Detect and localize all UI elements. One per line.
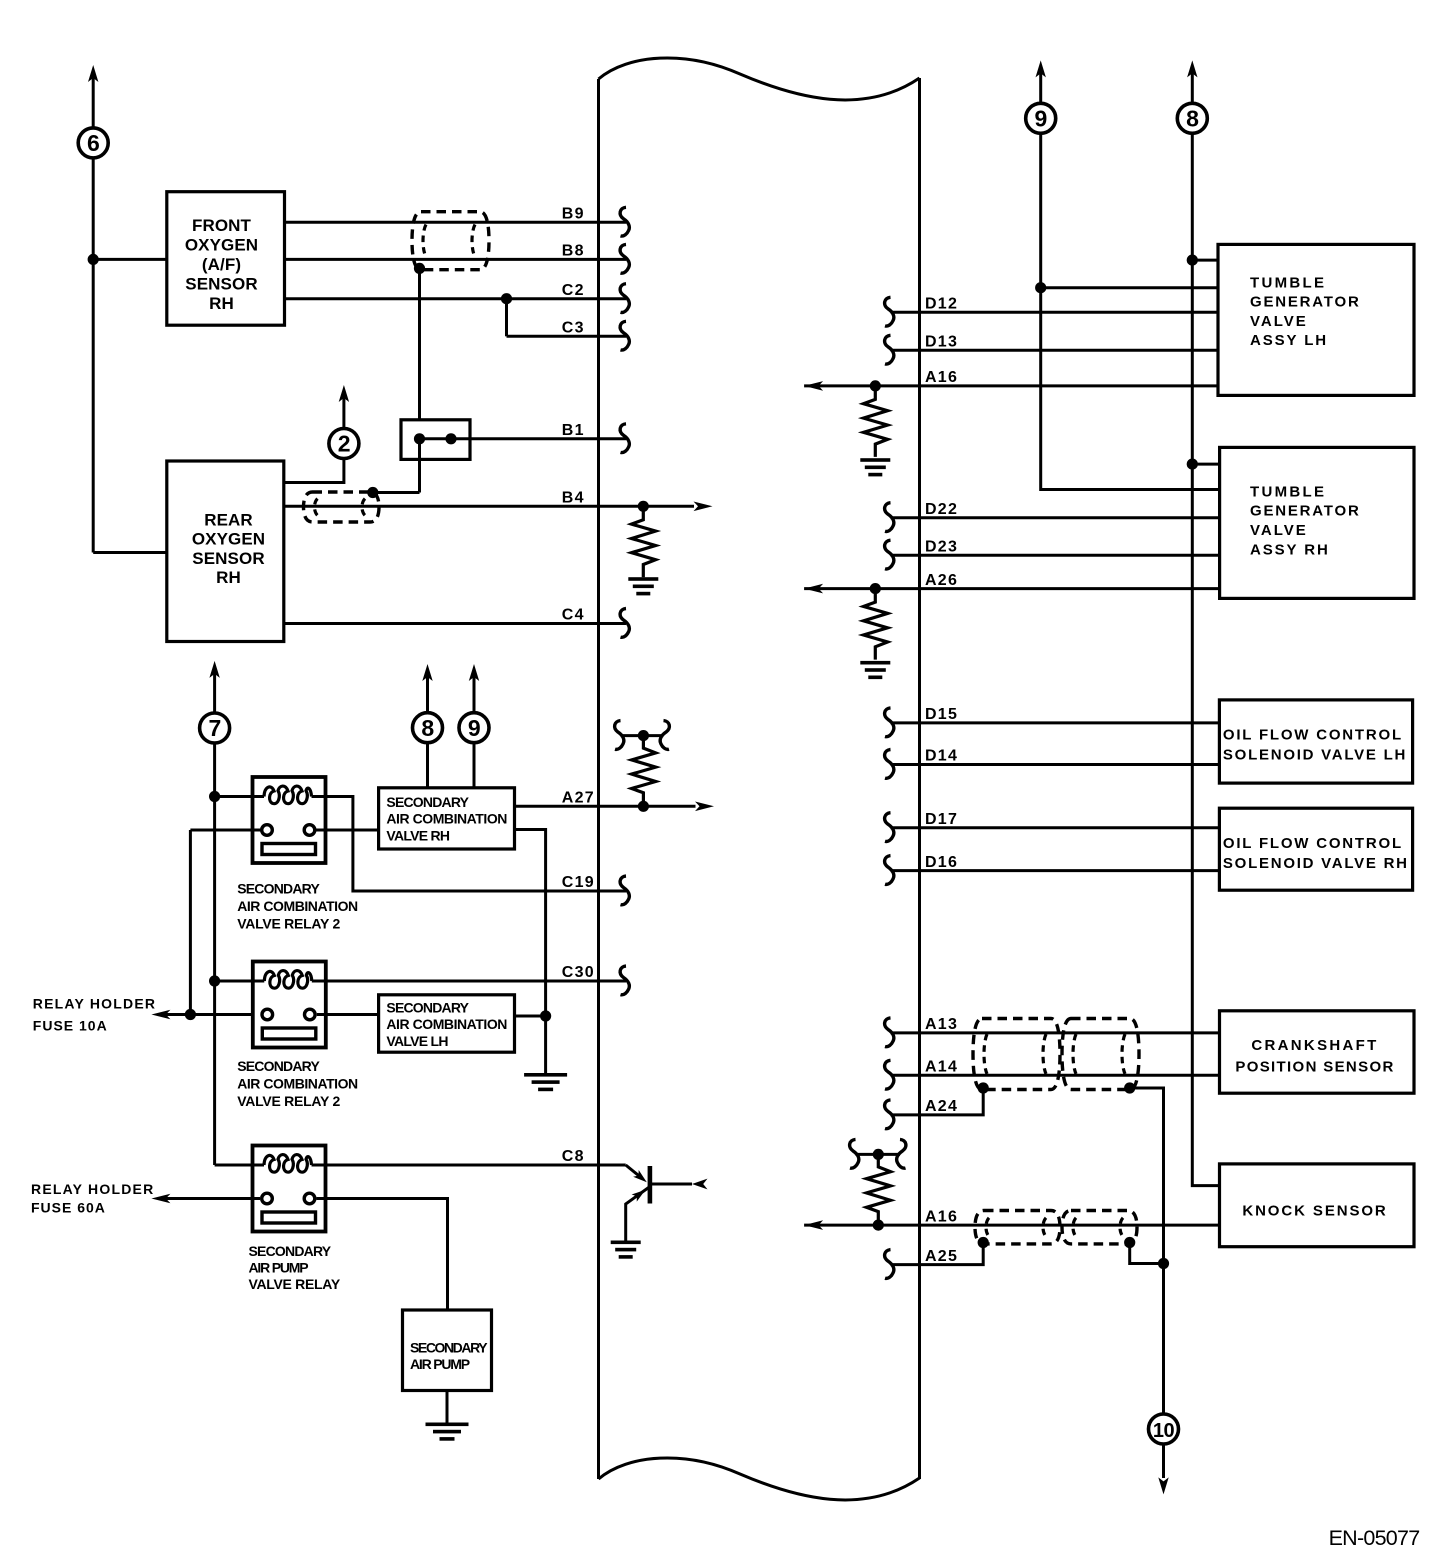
svg-text:SECONDARY: SECONDARY bbox=[386, 794, 469, 810]
rail break squiggle left bbox=[615, 721, 624, 750]
wire node9 vertical (right) bbox=[1041, 133, 1220, 489]
svg-text:VALVE RELAY 2: VALVE RELAY 2 bbox=[237, 1093, 340, 1109]
wire relay2 contact left bbox=[190, 1013, 260, 1016]
transistor Q1 base lead bbox=[626, 1165, 641, 1178]
shield knock segment 1 bbox=[975, 1211, 1060, 1244]
connector break A25 bbox=[885, 1250, 894, 1279]
svg-text:RELAY HOLDER: RELAY HOLDER bbox=[31, 1181, 154, 1197]
svg-text:2: 2 bbox=[338, 431, 350, 457]
wire to rear oxygen sensor bbox=[93, 551, 167, 554]
wire A16 tumble bbox=[804, 384, 1218, 387]
wire D14 bbox=[891, 763, 1220, 766]
wire node7 vertical bbox=[213, 743, 216, 1165]
wire to relay2 coil bbox=[215, 980, 253, 983]
wire C3 bbox=[507, 335, 627, 338]
wire C2 bbox=[285, 297, 627, 300]
wire fuse10A arrow bbox=[165, 1013, 190, 1016]
connector break D22 bbox=[885, 503, 894, 532]
ECM bus left edge bbox=[597, 79, 600, 1479]
svg-text:KNOCK SENSOR: KNOCK SENSOR bbox=[1242, 1203, 1387, 1220]
wire to relay1 coil bbox=[215, 795, 253, 798]
wire D16 bbox=[891, 869, 1220, 872]
node 9 arrow up (valve RH) bbox=[469, 664, 479, 681]
svg-text:D16: D16 bbox=[925, 854, 958, 871]
node 8 circled number (right) bbox=[1177, 103, 1207, 133]
svg-text:SENSOR: SENSOR bbox=[192, 549, 264, 568]
node 8 arrow up (valve RH) bbox=[422, 664, 432, 681]
condenser drain down bbox=[418, 439, 421, 493]
wire relay1 contact left bbox=[190, 829, 261, 832]
node 9 wire up (right) bbox=[1039, 72, 1042, 103]
arrow A16 tumble bbox=[804, 381, 823, 391]
junction node8 tumble LH bbox=[1187, 255, 1198, 266]
svg-text:OIL FLOW CONTROL: OIL FLOW CONTROL bbox=[1223, 835, 1403, 852]
connector break A13 bbox=[885, 1018, 894, 1047]
oil flow control solenoid valve LH box bbox=[1219, 700, 1412, 783]
svg-text:D14: D14 bbox=[925, 748, 958, 765]
wire node10 bbox=[1162, 1264, 1165, 1415]
connector break D23 bbox=[885, 540, 894, 569]
svg-text:A26: A26 bbox=[925, 572, 958, 589]
svg-text:VALVE: VALVE bbox=[1250, 522, 1308, 539]
connector break C19 bbox=[620, 876, 629, 905]
svg-text:SECONDARY: SECONDARY bbox=[410, 1340, 488, 1356]
node 2 wire up bbox=[342, 397, 345, 429]
svg-text:A13: A13 bbox=[925, 1016, 958, 1033]
svg-text:D15: D15 bbox=[925, 706, 958, 723]
wire D17 bbox=[891, 826, 1220, 829]
tumble generator valve assy LH box bbox=[1218, 244, 1414, 395]
shield crankshaft pair segment 1 bbox=[973, 1019, 1060, 1090]
junction knock rail bbox=[873, 1149, 884, 1160]
connector break D13 bbox=[885, 335, 894, 364]
shield drain junction knock right bbox=[1124, 1237, 1135, 1248]
connector break D14 bbox=[885, 750, 894, 779]
transistor Q1 base arrow bbox=[633, 1170, 649, 1186]
svg-text:FUSE 10A: FUSE 10A bbox=[33, 1017, 108, 1033]
wire node2 to rear oxygen bbox=[284, 459, 344, 483]
svg-text:TUMBLE: TUMBLE bbox=[1250, 483, 1326, 500]
svg-text:A16: A16 bbox=[925, 1208, 958, 1225]
junction relay2 coil bbox=[209, 975, 220, 986]
shield drain junction knock left bbox=[978, 1237, 989, 1248]
wire B9 bbox=[285, 221, 627, 224]
shield drain wire down to noise filter bbox=[418, 268, 421, 438]
svg-text:C3: C3 bbox=[562, 320, 585, 337]
wire D12 bbox=[891, 311, 1219, 314]
A27 pullup rail bbox=[621, 734, 664, 737]
svg-text:GENERATOR: GENERATOR bbox=[1250, 503, 1361, 520]
wire node9 to tumble LH bbox=[1041, 286, 1218, 289]
connector break C3 bbox=[620, 321, 629, 350]
connector break C30 bbox=[620, 966, 629, 995]
relay K2 secondary air combination valve relay 2 bbox=[253, 962, 326, 1048]
node 7 circled number bbox=[200, 713, 230, 743]
connector break D17 bbox=[885, 813, 894, 842]
secondary air combination valve LH box bbox=[379, 995, 515, 1052]
wire C2 to C3 drop bbox=[505, 299, 508, 337]
shield drain junction B8 bbox=[414, 263, 425, 274]
secondary air pump box bbox=[403, 1310, 492, 1391]
arrow B4 internal bbox=[694, 502, 713, 512]
resistor A27 pullup bbox=[632, 735, 656, 806]
transistor Q1 bar bbox=[648, 1166, 653, 1204]
junction node9 tumble LH bbox=[1035, 282, 1046, 293]
node 9 circled number bbox=[459, 713, 489, 743]
svg-text:OXYGEN: OXYGEN bbox=[192, 530, 265, 549]
svg-text:VALVE RH: VALVE RH bbox=[386, 827, 449, 843]
svg-text:AIR COMBINATION: AIR COMBINATION bbox=[386, 811, 507, 827]
wire A14 bbox=[891, 1074, 1220, 1077]
node 10 arrow down bbox=[1158, 1477, 1168, 1494]
wire valve LH to ground junction bbox=[515, 1015, 546, 1018]
ECM bus bottom break (wavy edge) bbox=[599, 1458, 920, 1500]
svg-text:B1: B1 bbox=[562, 422, 585, 439]
svg-text:9: 9 bbox=[1035, 106, 1047, 132]
svg-text:RH: RH bbox=[216, 568, 241, 587]
node 6 arrow up bbox=[88, 65, 98, 82]
condenser terminal left bbox=[414, 433, 425, 444]
node 8 circled number bbox=[413, 713, 443, 743]
arrow to relay holder fuse 10A bbox=[151, 1010, 170, 1020]
svg-text:8: 8 bbox=[421, 715, 434, 741]
resistor A16 pulldown bbox=[864, 386, 888, 457]
svg-text:AIR COMBINATION: AIR COMBINATION bbox=[237, 898, 358, 914]
svg-text:SECONDARY: SECONDARY bbox=[386, 1000, 469, 1016]
node 2 circled number bbox=[329, 429, 359, 459]
svg-text:B4: B4 bbox=[562, 490, 585, 507]
junction fuse 10A bbox=[185, 1009, 196, 1020]
junction valve LH ground bbox=[540, 1010, 551, 1021]
svg-text:C8: C8 bbox=[562, 1148, 585, 1165]
wire A25 bbox=[891, 1243, 984, 1265]
wire to front oxygen sensor bbox=[93, 258, 167, 261]
ground B4 resistor bbox=[628, 577, 658, 581]
wire relay1 contact right to valve RH bbox=[316, 829, 379, 832]
connector break C4 bbox=[620, 609, 629, 638]
oil flow control solenoid valve RH box bbox=[1219, 808, 1412, 890]
shield around B4 bbox=[304, 492, 380, 522]
svg-text:AIR COMBINATION: AIR COMBINATION bbox=[237, 1076, 358, 1092]
wire A16 knock bbox=[804, 1224, 1219, 1227]
svg-text:TUMBLE: TUMBLE bbox=[1250, 274, 1326, 291]
node 8 wire up (right) bbox=[1191, 72, 1194, 103]
resistor knock pullup bbox=[867, 1154, 891, 1225]
svg-text:D17: D17 bbox=[925, 811, 958, 828]
svg-text:OXYGEN: OXYGEN bbox=[185, 235, 258, 254]
junction shield drains bbox=[1158, 1258, 1169, 1269]
rear oxygen sensor RH box bbox=[167, 461, 284, 642]
svg-text:RH: RH bbox=[209, 294, 234, 313]
wire node8 vertical (right) bbox=[1192, 133, 1219, 1185]
wire node8 to tumble LH bbox=[1192, 259, 1218, 262]
svg-text:VALVE RELAY 2: VALVE RELAY 2 bbox=[237, 916, 340, 932]
svg-text:6: 6 bbox=[87, 130, 99, 156]
shield drain junction B4 bbox=[367, 487, 378, 498]
shield drain junction crank left bbox=[978, 1082, 989, 1093]
svg-text:A16: A16 bbox=[925, 369, 958, 386]
wire D23 bbox=[891, 554, 1220, 557]
node 8 wire up bbox=[426, 676, 429, 713]
tumble generator valve assy RH box bbox=[1220, 447, 1414, 598]
knock sensor box bbox=[1220, 1164, 1415, 1247]
svg-text:GENERATOR: GENERATOR bbox=[1250, 294, 1361, 311]
svg-text:D13: D13 bbox=[925, 334, 958, 351]
node 2 arrow up bbox=[339, 385, 349, 402]
svg-text:(A/F): (A/F) bbox=[202, 255, 241, 274]
wire node9 to valve RH bbox=[473, 743, 476, 788]
ground A26 resistor bbox=[860, 661, 890, 665]
node 7 wire up bbox=[213, 673, 216, 713]
condenser terminal right bbox=[445, 433, 456, 444]
shield crankshaft pair segment 2 bbox=[1062, 1019, 1139, 1090]
svg-text:SECONDARY: SECONDARY bbox=[237, 1058, 320, 1074]
wire node6 vertical bbox=[92, 158, 95, 553]
node 7 arrow up bbox=[209, 661, 219, 678]
svg-text:9: 9 bbox=[468, 715, 480, 741]
svg-text:SOLENOID VALVE RH: SOLENOID VALVE RH bbox=[1223, 855, 1409, 872]
svg-text:B9: B9 bbox=[562, 206, 585, 223]
shield knock segment 2 bbox=[1062, 1211, 1137, 1244]
svg-text:A27: A27 bbox=[562, 790, 595, 807]
wire to relay3 coil bbox=[215, 1164, 253, 1167]
wire A13 bbox=[891, 1031, 1220, 1034]
svg-text:C30: C30 bbox=[562, 964, 595, 981]
connector break D16 bbox=[885, 856, 894, 885]
junction A26 pulldown bbox=[870, 583, 881, 594]
arrow A26 bbox=[804, 584, 823, 594]
ground transistor emitter bbox=[611, 1241, 641, 1245]
wire fuse 60A bbox=[165, 1197, 260, 1200]
svg-text:POSITION SENSOR: POSITION SENSOR bbox=[1235, 1058, 1394, 1075]
junction B4 pulldown bbox=[638, 501, 649, 512]
svg-text:ASSY RH: ASSY RH bbox=[1250, 541, 1330, 558]
svg-text:B8: B8 bbox=[562, 243, 585, 260]
svg-text:C19: C19 bbox=[562, 874, 595, 891]
svg-text:C2: C2 bbox=[562, 282, 585, 299]
svg-text:SOLENOID VALVE LH: SOLENOID VALVE LH bbox=[1223, 747, 1407, 764]
rail break squiggle right (knock) bbox=[897, 1139, 906, 1168]
svg-text:D23: D23 bbox=[925, 538, 958, 555]
svg-text:D22: D22 bbox=[925, 501, 958, 518]
svg-text:VALVE: VALVE bbox=[1250, 313, 1308, 330]
wire D13 bbox=[891, 349, 1219, 352]
wire A27 bbox=[515, 805, 696, 808]
connector break B1 bbox=[620, 424, 629, 453]
svg-text:EN-05077: EN-05077 bbox=[1329, 1526, 1420, 1550]
knock pullup rail bbox=[856, 1153, 901, 1156]
wire relay2 contact right to valve LH bbox=[317, 1013, 379, 1016]
connector break B9 bbox=[620, 207, 629, 236]
resistor A26 pulldown bbox=[864, 589, 888, 660]
wire air pump to ground bbox=[446, 1391, 449, 1423]
ground A16 resistor bbox=[860, 458, 890, 462]
svg-text:10: 10 bbox=[1153, 1420, 1175, 1442]
svg-text:VALVE RELAY: VALVE RELAY bbox=[249, 1276, 341, 1292]
node 9 circled number (right) bbox=[1026, 103, 1056, 133]
fuse 10A riser bbox=[189, 830, 192, 1015]
connector break D15 bbox=[885, 708, 894, 737]
svg-text:SECONDARY: SECONDARY bbox=[249, 1243, 332, 1259]
svg-text:AIR PUMP: AIR PUMP bbox=[249, 1260, 309, 1276]
wire A26 bbox=[804, 587, 1220, 590]
shield drain junction crank right bbox=[1124, 1082, 1135, 1093]
node 6 circled number bbox=[78, 128, 108, 158]
junction A27 pullup bbox=[638, 801, 649, 812]
relay K3 secondary air pump valve relay bbox=[253, 1146, 326, 1232]
svg-text:C4: C4 bbox=[562, 607, 585, 624]
ECM bus top break (wavy edge) bbox=[599, 58, 920, 100]
svg-text:A14: A14 bbox=[925, 1059, 958, 1076]
wire node10 down bbox=[1162, 1444, 1165, 1478]
node 9 arrow up (right) bbox=[1036, 60, 1046, 77]
junction A16 pulldown bbox=[870, 380, 881, 391]
wire node8 to tumble RH bbox=[1192, 463, 1219, 466]
svg-text:SENSOR: SENSOR bbox=[185, 274, 257, 293]
rail break squiggle left (knock) bbox=[850, 1139, 859, 1168]
junction node8 tumble RH bbox=[1187, 459, 1198, 470]
arrow to relay holder fuse 60A bbox=[151, 1194, 170, 1204]
ECM bus right edge bbox=[918, 78, 921, 1479]
rail break squiggle right bbox=[660, 721, 669, 750]
node 9 wire up bbox=[473, 676, 476, 713]
svg-text:7: 7 bbox=[208, 715, 220, 741]
svg-text:REAR: REAR bbox=[204, 510, 253, 529]
svg-text:RELAY HOLDER: RELAY HOLDER bbox=[33, 996, 156, 1012]
drain wire to B4 shield bbox=[373, 491, 420, 494]
ground valves bbox=[524, 1073, 567, 1077]
shield drain wire knock bbox=[1130, 1243, 1164, 1264]
transistor Q1 emitter arrow bbox=[632, 1186, 648, 1201]
wire relay1 coil to C19 bbox=[326, 797, 627, 892]
relay K1 secondary air combination valve relay 2 bbox=[253, 777, 326, 863]
arrow A16 knock bbox=[804, 1220, 823, 1230]
front oxygen (A/F) sensor RH box bbox=[167, 192, 285, 326]
shield around B9/B8 bbox=[412, 212, 489, 270]
svg-text:8: 8 bbox=[1186, 106, 1199, 132]
resistor B4 pulldown bbox=[632, 506, 656, 577]
junction A16 knock pullup bbox=[873, 1220, 884, 1231]
svg-text:ASSY LH: ASSY LH bbox=[1250, 332, 1328, 349]
svg-text:VALVE LH: VALVE LH bbox=[386, 1033, 448, 1049]
wire node8 to valve RH bbox=[426, 743, 429, 788]
transistor Q1 collector lead bbox=[652, 1183, 692, 1186]
wire A24 bbox=[891, 1087, 984, 1115]
connector break A14 bbox=[885, 1060, 894, 1089]
svg-text:FRONT: FRONT bbox=[192, 216, 252, 235]
wire D15 bbox=[891, 721, 1220, 724]
node 6 wire up bbox=[92, 77, 95, 128]
wire B4 bbox=[284, 505, 694, 508]
connector break A24 bbox=[885, 1100, 894, 1129]
wire C4 bbox=[284, 622, 626, 625]
wire C30 from relay2 coil bbox=[326, 980, 626, 983]
transistor Q1 collector arrow bbox=[692, 1179, 708, 1190]
svg-text:SECONDARY: SECONDARY bbox=[237, 881, 320, 897]
junction relay1 coil bbox=[209, 791, 220, 802]
node 10 circled number bbox=[1149, 1414, 1179, 1444]
wire relay3 contact to air pump bbox=[317, 1199, 448, 1311]
connector break C2 bbox=[620, 284, 629, 313]
wire D22 bbox=[891, 516, 1220, 519]
ground air pump bbox=[426, 1423, 469, 1427]
svg-text:A25: A25 bbox=[925, 1248, 958, 1265]
transistor Q1 emitter lead bbox=[626, 1187, 650, 1241]
connector break B8 bbox=[620, 244, 629, 273]
noise condenser box B1 bbox=[401, 420, 470, 460]
shield drain wire crank to node10 bbox=[1130, 1088, 1164, 1264]
wire C8 from relay3 coil bbox=[326, 1164, 626, 1167]
connector break D12 bbox=[885, 297, 894, 326]
wire valve RH to ground drop bbox=[515, 830, 546, 1074]
svg-text:CRANKSHAFT: CRANKSHAFT bbox=[1251, 1037, 1378, 1054]
svg-text:AIR COMBINATION: AIR COMBINATION bbox=[386, 1016, 507, 1032]
node 8 arrow up (right) bbox=[1187, 60, 1197, 77]
svg-text:OIL FLOW CONTROL: OIL FLOW CONTROL bbox=[1223, 726, 1403, 743]
wire B8 bbox=[285, 258, 627, 261]
svg-text:A24: A24 bbox=[925, 1098, 958, 1115]
junction A27 rail bbox=[638, 730, 649, 741]
arrow A27 internal bbox=[695, 802, 714, 812]
secondary air combination valve RH box bbox=[379, 788, 515, 849]
svg-text:D12: D12 bbox=[925, 296, 958, 313]
wire B1 bbox=[420, 437, 627, 440]
junction front-oxygen supply bbox=[88, 254, 99, 265]
crankshaft position sensor box bbox=[1220, 1011, 1415, 1093]
junction C2/C3 bbox=[501, 293, 512, 304]
svg-text:AIR PUMP: AIR PUMP bbox=[410, 1356, 470, 1372]
svg-text:FUSE 60A: FUSE 60A bbox=[31, 1200, 106, 1216]
